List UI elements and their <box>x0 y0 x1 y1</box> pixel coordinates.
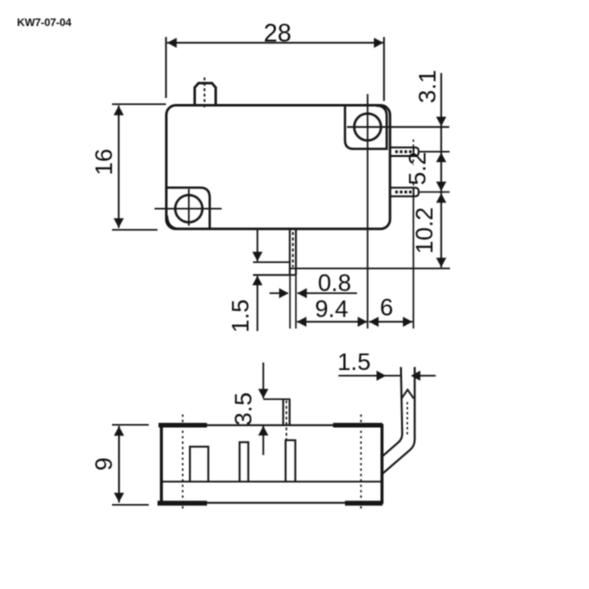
svg-text:1.5: 1.5 <box>337 349 370 376</box>
svg-text:6: 6 <box>380 295 393 322</box>
svg-text:10.2: 10.2 <box>412 207 439 254</box>
svg-text:1.5: 1.5 <box>228 299 255 332</box>
svg-text:3.5: 3.5 <box>231 392 258 425</box>
svg-text:9: 9 <box>91 457 118 470</box>
svg-text:28: 28 <box>264 20 292 48</box>
svg-text:5.2: 5.2 <box>405 152 432 185</box>
svg-text:9.4: 9.4 <box>315 296 348 323</box>
svg-text:0.8: 0.8 <box>318 270 351 297</box>
svg-text:16: 16 <box>91 149 118 176</box>
svg-text:3.1: 3.1 <box>415 70 442 103</box>
svg-text:KW7-07-04: KW7-07-04 <box>17 17 71 29</box>
